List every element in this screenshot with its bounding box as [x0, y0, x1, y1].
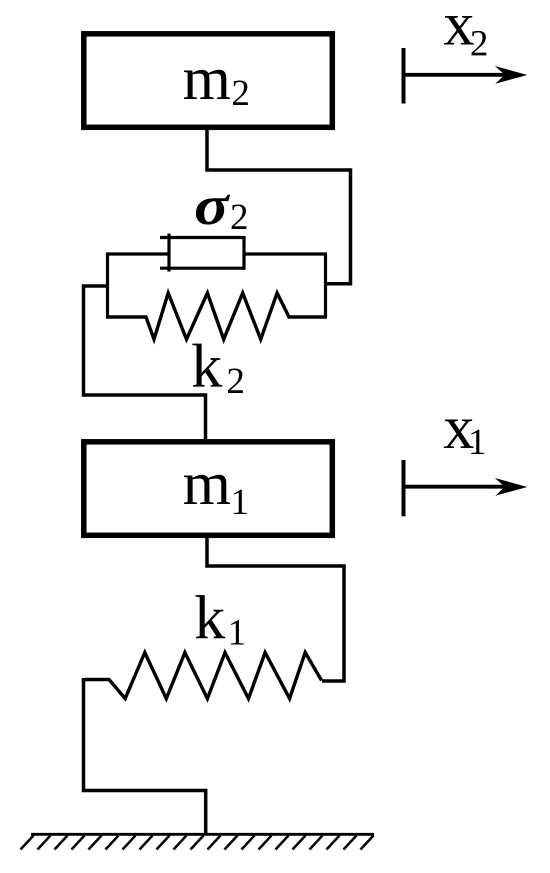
label sigma2 subscript 2 [232, 205, 247, 229]
label x1 subscript 1 [471, 430, 484, 454]
label k1 letter k [195, 595, 225, 638]
label x1 letter x [444, 420, 474, 448]
label m1 subscript 1 [234, 490, 247, 514]
wire left bar to lower mass [84, 286, 206, 443]
label x2 letter x [444, 16, 474, 44]
mass m2 [84, 34, 332, 128]
spring k2 [106, 293, 327, 339]
spring k1 [85, 653, 322, 699]
label m2 subscript 2 [233, 81, 248, 105]
label k1 subscript 1 [231, 620, 244, 644]
wire from m2 bottom [207, 128, 351, 284]
label m2 letter m [184, 70, 230, 99]
wire damper right lead [244, 252, 327, 255]
node right bar of parallel combo [324, 254, 327, 318]
wire damper left lead [106, 252, 169, 255]
label k2 letter k [192, 344, 222, 387]
label k2 subscript 2 [228, 369, 243, 393]
ground hatching [21, 836, 374, 850]
ground [31, 833, 374, 836]
arrow x1 [402, 460, 527, 516]
label x2 subscript 2 [472, 31, 487, 55]
damper sigma2 [160, 234, 244, 272]
arrow x2 [402, 48, 527, 104]
label m1 letter m [184, 475, 230, 504]
label sigma2 letter sigma [196, 195, 230, 225]
mass m1 [84, 442, 332, 536]
wire from m1 bottom [207, 536, 344, 681]
node left bar of parallel combo [106, 253, 109, 318]
wire k1 left to ground [84, 678, 206, 835]
